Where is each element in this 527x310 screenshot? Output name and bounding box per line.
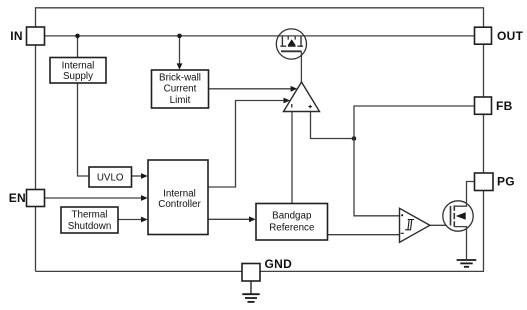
wire Thermal Shutdown to Internal Controller bbox=[118, 219, 142, 221]
svg-text:Brick-wall: Brick-wall bbox=[159, 72, 201, 83]
block Internal Controller bbox=[148, 160, 208, 235]
svg-text:OUT: OUT bbox=[497, 29, 524, 43]
svg-text:PG: PG bbox=[497, 175, 515, 189]
svg-text:Current: Current bbox=[164, 84, 197, 95]
pin IN bbox=[10, 27, 44, 45]
wire Internal Controller to error amp input 2 bbox=[208, 101, 285, 188]
block Internal Supply bbox=[50, 58, 106, 84]
pass transistor Q1 (PMOS in circle) bbox=[276, 29, 306, 59]
wire Internal Controller to Bandgap Reference bbox=[208, 218, 250, 220]
svg-text:Bandgap: Bandgap bbox=[272, 210, 312, 221]
svg-text:EN: EN bbox=[9, 191, 26, 205]
wire error amp noninverting input to FB net bbox=[311, 112, 355, 139]
pin EN bbox=[9, 190, 45, 207]
pin OUT bbox=[475, 27, 524, 44]
wire IN to OUT main line bbox=[36, 35, 484, 37]
svg-text:FB: FB bbox=[496, 99, 513, 113]
wire Brick-wall output to error amp input 1 bbox=[209, 88, 292, 90]
svg-text:Supply: Supply bbox=[63, 71, 93, 82]
svg-text:Internal: Internal bbox=[62, 61, 95, 72]
block UVLO bbox=[89, 167, 132, 187]
wire IN line to Brick-wall Current Limit bbox=[179, 36, 181, 65]
ground symbol below MOSFET Q2 bbox=[457, 260, 477, 267]
node junction on FB net bbox=[352, 136, 357, 141]
block Thermal Shutdown bbox=[61, 207, 118, 233]
ground symbol below GND pin bbox=[242, 281, 259, 302]
svg-text:IN: IN bbox=[10, 29, 23, 43]
svg-text:Controller: Controller bbox=[158, 199, 201, 210]
svg-text:Internal: Internal bbox=[163, 188, 196, 199]
wire IN line to Internal Supply bbox=[77, 36, 79, 58]
svg-text:UVLO: UVLO bbox=[97, 172, 124, 183]
op-amp U1 error amplifier bbox=[284, 82, 320, 112]
wire error amp inverting input to Bandgap Reference top bbox=[291, 112, 293, 204]
wire EN to Internal Controller bbox=[45, 197, 142, 199]
comparator U2 (power-good, with hysteresis) bbox=[400, 208, 430, 242]
node junction on IN line at Internal Supply tap bbox=[75, 34, 80, 39]
pin GND bbox=[242, 257, 292, 281]
transistor Q2 (open-drain PG NMOS) bbox=[443, 182, 474, 260]
svg-text:Limit: Limit bbox=[170, 95, 191, 106]
svg-text:Thermal: Thermal bbox=[72, 209, 108, 220]
node junction on IN line at Brick-wall tap bbox=[177, 34, 182, 39]
wire error amp output to pass transistor gate bbox=[300, 51, 302, 82]
wire frame (top border, left rail, right rail, bottom GND rail) bbox=[36, 8, 485, 272]
wire UVLO to Internal Controller bbox=[132, 175, 142, 177]
pin FB bbox=[475, 97, 513, 114]
pin PG bbox=[475, 173, 515, 191]
svg-text:GND: GND bbox=[265, 257, 293, 271]
wire Bandgap Reference to comparator input bbox=[328, 234, 400, 236]
svg-text:Shutdown: Shutdown bbox=[68, 221, 112, 232]
wire FB pin net down to comparator input bbox=[354, 106, 474, 216]
block Brick-wall Current Limit bbox=[152, 70, 209, 108]
wire Internal Supply to UVLO bbox=[78, 83, 90, 176]
wire comparator output to MOSFET gate bbox=[430, 224, 451, 226]
block Bandgap Reference bbox=[256, 204, 328, 241]
svg-text:Reference: Reference bbox=[269, 222, 315, 233]
